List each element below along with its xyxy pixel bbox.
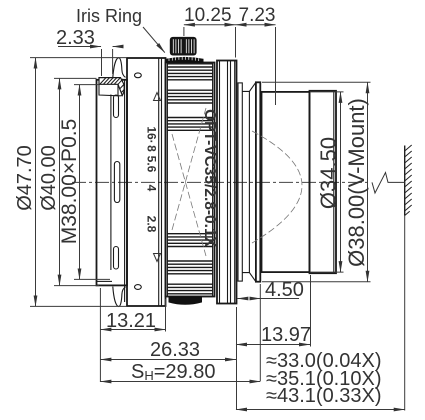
dimension Ø47.70 xyxy=(14,58,127,307)
dimension 2.33 xyxy=(56,27,123,76)
front barrel Ø40 xyxy=(97,80,128,302)
dimension 10.25 / 7.23 xyxy=(184,5,276,105)
svg-text:7.23: 7.23 xyxy=(239,5,276,26)
dimension Ø34.50 xyxy=(310,92,344,272)
dimension Ø40.00 xyxy=(38,78,99,285)
inner thread line xyxy=(110,95,112,271)
rear cylinder F xyxy=(262,92,310,272)
svg-text:≈43.1(0.33X): ≈43.1(0.33X) xyxy=(266,385,382,407)
svg-text:SH=29.80: SH=29.80 xyxy=(131,361,215,383)
svg-text:4.50: 4.50 xyxy=(265,279,304,301)
break symbol xyxy=(372,173,405,194)
aperture scale numbers xyxy=(145,126,159,232)
svg-text:4: 4 xyxy=(145,185,159,192)
slot 1 xyxy=(114,95,119,118)
iris knob xyxy=(170,37,197,56)
ring C xyxy=(238,83,242,281)
top hatched clamp xyxy=(99,78,124,96)
svg-text:13.21: 13.21 xyxy=(106,310,156,332)
focus index 0 bottom xyxy=(135,285,142,290)
aperture index triangle top xyxy=(154,93,161,101)
svg-text:Ø34.50: Ø34.50 xyxy=(316,137,341,209)
svg-text:Ø40.00: Ø40.00 xyxy=(38,145,60,211)
bottom thumb tab xyxy=(113,287,126,307)
hidden aperture lines xyxy=(172,108,206,256)
svg-text:2.33: 2.33 xyxy=(56,27,95,49)
dimension Ø38.00(V-Mount) xyxy=(262,82,371,281)
dimension 4.50 xyxy=(237,279,304,381)
aperture index triangle bottom xyxy=(154,254,161,262)
rear ring B xyxy=(217,61,237,304)
V-mount ring E xyxy=(256,82,262,281)
svg-text:5.6: 5.6 xyxy=(145,156,159,173)
slot 3 xyxy=(114,247,119,270)
dimension 13.97 xyxy=(236,275,311,410)
knurl ridges xyxy=(167,64,212,297)
svg-text:Ø47.70: Ø47.70 xyxy=(14,145,36,211)
iris ring top band xyxy=(166,57,203,63)
image plane wall xyxy=(405,145,412,216)
dimension 26.33 and ≈33.0(0.04X) xyxy=(100,339,381,372)
svg-text:13.97: 13.97 xyxy=(261,324,311,346)
iris ring bottom band xyxy=(169,297,202,305)
focus index 0 top xyxy=(135,73,142,78)
svg-text:Ø38.00(V-Mount): Ø38.00(V-Mount) xyxy=(344,98,369,267)
main barrel Ø47.7 xyxy=(127,58,166,306)
dimension ≈43.1(0.33X) xyxy=(236,216,405,411)
label Iris Ring xyxy=(76,6,165,53)
svg-text:8: 8 xyxy=(145,145,159,152)
dimension SH=29.80 and ≈35.1(0.10X) xyxy=(100,361,381,390)
waist and cone to mount xyxy=(242,82,256,281)
svg-text:16·: 16· xyxy=(145,126,159,143)
bottom thread line xyxy=(97,280,113,282)
svg-text:2.8: 2.8 xyxy=(145,216,159,233)
svg-text:OPT-VC35/2.8-0.1X: OPT-VC35/2.8-0.1X xyxy=(201,109,218,248)
svg-text:Iris Ring: Iris Ring xyxy=(76,6,142,26)
top thumb tab xyxy=(113,58,126,78)
dimension M38.00×P0.5 xyxy=(58,85,110,280)
dimension 13.21 xyxy=(100,288,165,382)
centerline xyxy=(72,181,371,183)
svg-text:10.25: 10.25 xyxy=(184,5,232,26)
knurled focus ring xyxy=(166,63,215,297)
rear element hidden arc xyxy=(252,131,302,243)
mount flange G xyxy=(310,91,337,273)
svg-text:M38.00×P0.5: M38.00×P0.5 xyxy=(58,119,81,245)
svg-text:26.33: 26.33 xyxy=(150,339,200,361)
slot 2 xyxy=(114,162,119,203)
